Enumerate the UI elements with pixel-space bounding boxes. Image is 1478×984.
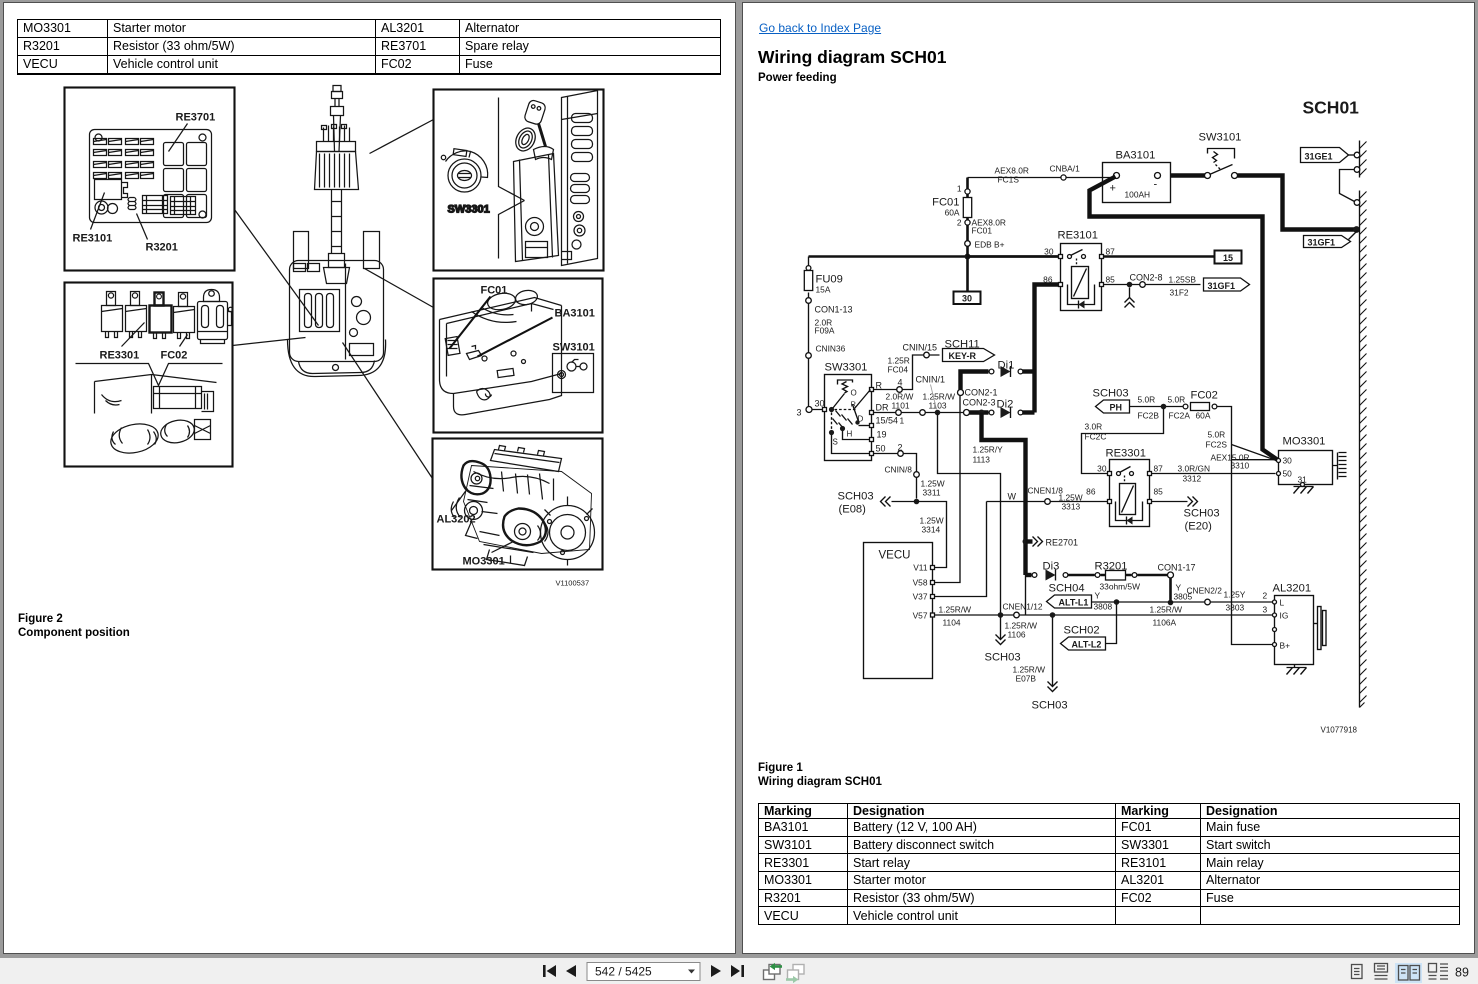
svg-text:33ohm/5W: 33ohm/5W — [1100, 582, 1141, 592]
wire 1106 drop to SCH03 — [1000, 618, 1002, 639]
svg-text:CNIN36: CNIN36 — [816, 344, 846, 354]
svg-text:FC2S: FC2S — [1206, 440, 1228, 450]
svg-text:R3201: R3201 — [1095, 561, 1128, 573]
svg-text:CNIN/8: CNIN/8 — [885, 465, 913, 475]
svg-text:FC2C: FC2C — [1085, 432, 1107, 442]
svg-text:30: 30 — [1097, 464, 1107, 474]
svg-text:-: - — [1154, 179, 1158, 191]
svg-text:SCH01: SCH01 — [1303, 98, 1360, 118]
ground wall right — [1360, 141, 1367, 708]
svg-text:SW3101: SW3101 — [1199, 132, 1242, 144]
svg-text:RE3301: RE3301 — [1106, 448, 1146, 460]
wire battery+ thick feed to MO3301 — [1090, 177, 1279, 461]
figure box 2: relay row and starter area — [65, 283, 233, 467]
svg-text:V58: V58 — [913, 578, 928, 588]
svg-text:1.25R/W: 1.25R/W — [939, 605, 972, 615]
alternator AL3201 — [1273, 583, 1327, 675]
svg-text:Di3: Di3 — [1043, 561, 1060, 573]
leader lines — [235, 210, 319, 326]
diode Di1 — [961, 372, 989, 390]
battery BA3101 — [1103, 163, 1171, 203]
svg-text:3.0R/GN: 3.0R/GN — [1178, 464, 1211, 474]
svg-text:31GE1: 31GE1 — [1305, 152, 1333, 162]
svg-text:2: 2 — [898, 443, 903, 453]
svg-text:1103: 1103 — [929, 401, 947, 411]
svg-text:3808: 3808 — [1094, 602, 1113, 612]
pulley — [1314, 623, 1318, 625]
svg-text:L: L — [1280, 598, 1285, 608]
svg-text:FC04: FC04 — [888, 365, 909, 375]
svg-text:FC02: FC02 — [161, 350, 188, 362]
relay RE3301 — [1097, 448, 1163, 527]
wire 1.25R/Y 1113 thick — [982, 413, 1026, 576]
ground MO3301 — [1301, 483, 1305, 487]
svg-text:CNEN2/2: CNEN2/2 — [1187, 586, 1223, 596]
relay RE3101 white — [95, 180, 122, 200]
svg-text:1.25R/W: 1.25R/W — [1150, 605, 1183, 615]
svg-text:FC01: FC01 — [481, 285, 508, 297]
svg-text:SCH02: SCH02 — [1064, 625, 1100, 637]
svg-text:89: 89 — [1455, 966, 1469, 980]
svg-text:542 / 5425: 542 / 5425 — [595, 965, 652, 979]
resistor R3201 coil — [128, 198, 136, 210]
svg-text:50: 50 — [876, 444, 886, 454]
machinery below — [95, 375, 217, 414]
svg-text:Y: Y — [1095, 591, 1101, 601]
svg-text:5.0R: 5.0R — [1168, 395, 1186, 405]
svg-text:3.0R: 3.0R — [1085, 422, 1103, 432]
callout line with notch — [76, 364, 223, 386]
svg-text:50: 50 — [1283, 469, 1293, 479]
svg-text:31GF1: 31GF1 — [1308, 238, 1336, 248]
connector blocks — [143, 196, 168, 214]
svg-text:RE3701: RE3701 — [176, 112, 216, 124]
wire RE3101 85 to CON2-8 — [1104, 284, 1201, 286]
svg-text:SW3301: SW3301 — [448, 204, 490, 216]
svg-text:SCH03: SCH03 — [985, 652, 1021, 664]
fuses grid — [94, 139, 154, 179]
wire R pin to KEY-R — [874, 355, 940, 390]
wire 1113 down to junction — [1025, 575, 1027, 615]
wire FC2C to RE3301 30 — [1082, 407, 1164, 474]
svg-text:1.25R/Y: 1.25R/Y — [973, 445, 1004, 455]
svg-text:FC01: FC01 — [972, 226, 993, 236]
svg-text:60A: 60A — [945, 208, 960, 218]
svg-text:5.0R: 5.0R — [1208, 430, 1226, 440]
svg-text:(E20): (E20) — [1185, 521, 1213, 533]
node CNBA/1 — [1061, 175, 1066, 180]
svg-text:RE3101: RE3101 — [1058, 230, 1098, 242]
fuse FC02 — [1183, 404, 1188, 409]
wire: top bus 30-feed — [809, 255, 1061, 258]
svg-text:CON2-1: CON2-1 — [965, 388, 998, 398]
svg-text:V1100537: V1100537 — [556, 579, 590, 588]
svg-text:2: 2 — [1263, 591, 1268, 601]
svg-text:1106A: 1106A — [1153, 618, 1177, 628]
svg-text:BA3101: BA3101 — [555, 308, 595, 320]
svg-text:1: 1 — [900, 416, 905, 426]
svg-text:+: + — [1110, 183, 1116, 195]
svg-text:AL3201: AL3201 — [1273, 583, 1312, 595]
svg-text:AL3202: AL3202 — [437, 514, 476, 526]
svg-text:4: 4 — [898, 378, 903, 388]
svg-text:CON1-17: CON1-17 — [1158, 563, 1196, 573]
svg-text:86: 86 — [1086, 487, 1096, 497]
svg-text:CON1-13: CON1-13 — [815, 305, 853, 315]
node CNIN36 — [806, 353, 812, 359]
flag 31GF1 top — [1304, 231, 1358, 248]
svg-text:3: 3 — [1263, 605, 1268, 615]
node CON1-13 — [806, 298, 812, 304]
svg-text:85: 85 — [1106, 275, 1116, 285]
rod rack — [324, 126, 350, 142]
wire E07B drop to SCH03 — [1052, 618, 1054, 686]
svg-text:31F2: 31F2 — [1170, 288, 1189, 298]
svg-text:1101: 1101 — [892, 401, 910, 411]
wire V57 row — [935, 614, 1273, 616]
central machine plan view — [288, 86, 386, 377]
svg-text:CNIN/1: CNIN/1 — [916, 375, 946, 385]
svg-text:V1077918: V1077918 — [1321, 726, 1358, 735]
svg-text:1.25SB: 1.25SB — [1169, 275, 1197, 285]
svg-text:S: S — [833, 438, 838, 447]
wire V37 to W wire — [935, 502, 987, 597]
figure box 4: battery compartment — [434, 279, 603, 433]
svg-text:RE3101: RE3101 — [73, 233, 113, 245]
svg-text:E07B: E07B — [1016, 674, 1037, 684]
svg-text:KEY-R: KEY-R — [949, 351, 977, 361]
switch SW3301 start switch — [823, 362, 899, 461]
svg-text:85: 85 — [1154, 487, 1164, 497]
ground stub chevron — [1129, 288, 1131, 298]
wire DR row — [874, 412, 964, 414]
svg-text:30: 30 — [1044, 247, 1054, 257]
svg-text:PH: PH — [1110, 403, 1123, 413]
round component — [95, 201, 108, 214]
fuse FU09 — [808, 257, 810, 298]
figure box 1: fuse/relay panel — [65, 88, 235, 271]
svg-text:1106: 1106 — [1008, 630, 1026, 640]
svg-text:SCH03: SCH03 — [1093, 388, 1129, 400]
figure box 3: start switch / console — [434, 90, 604, 271]
svg-text:V11: V11 — [913, 563, 928, 573]
node: bus/FC01 junction — [965, 254, 971, 260]
svg-text:RE2701: RE2701 — [1046, 538, 1079, 548]
svg-text:B+: B+ — [1280, 641, 1291, 651]
right panel — [562, 91, 598, 266]
svg-text:SCH03: SCH03 — [1184, 508, 1220, 520]
resistor R3201 — [1068, 574, 1168, 577]
svg-text:BA3101: BA3101 — [1116, 150, 1156, 162]
svg-text:2: 2 — [957, 218, 962, 228]
wire to SW3301 pin 30 — [809, 359, 825, 410]
VECU — [864, 543, 935, 679]
svg-text:15A: 15A — [816, 285, 831, 295]
node 30 terminal box — [954, 292, 981, 305]
diode Di3 row — [1026, 573, 1032, 577]
svg-text:3314: 3314 — [922, 525, 941, 535]
svg-text:FC2A: FC2A — [1169, 411, 1191, 421]
svg-text:19: 19 — [877, 430, 887, 440]
svg-text:EDB B+: EDB B+ — [975, 240, 1005, 250]
svg-text:3803: 3803 — [1226, 603, 1245, 613]
svg-text:F09A: F09A — [815, 326, 835, 336]
svg-text:15: 15 — [1223, 253, 1233, 263]
svg-text:CNBA/1: CNBA/1 — [1050, 164, 1081, 174]
svg-text:O: O — [851, 389, 857, 398]
svg-text:ALT-L2: ALT-L2 — [1072, 640, 1102, 650]
svg-text:CON2-3: CON2-3 — [963, 398, 996, 408]
wire CNIN/8 branch — [874, 454, 917, 499]
node W junction — [914, 499, 920, 505]
wire RE3301 85 to SCH03 E20 — [1152, 501, 1188, 503]
svg-text:3310: 3310 — [1231, 461, 1250, 471]
LEFT PAGE — [3, 2, 736, 954]
svg-text:31GF1: 31GF1 — [1208, 281, 1236, 291]
svg-text:FC02: FC02 — [1191, 390, 1218, 402]
console — [499, 98, 525, 259]
svg-text:CON2-8: CON2-8 — [1130, 273, 1163, 283]
wire 1.25Y row — [1117, 601, 1273, 603]
svg-text:3: 3 — [796, 408, 801, 418]
wire CNIN/1 to CNEN1/12 — [938, 413, 1001, 616]
svg-text:87: 87 — [1154, 464, 1164, 474]
wire RE3101 86 thick — [1035, 285, 1059, 413]
node 30 / 3 — [806, 407, 812, 413]
wire switch to ground wall — [1238, 176, 1356, 230]
svg-text:VECU: VECU — [879, 550, 911, 562]
starter motor MO3301 — [1277, 436, 1347, 494]
svg-text:V57: V57 — [913, 611, 928, 621]
uprights — [294, 232, 309, 269]
wire RE3101 30/87 row — [968, 255, 1215, 258]
svg-text:SCH04: SCH04 — [1049, 583, 1085, 595]
diode Di2 — [970, 410, 989, 414]
flag 31GF1 — [1204, 278, 1250, 291]
svg-text:CNIN/15: CNIN/15 — [903, 343, 938, 353]
svg-text:DR: DR — [876, 403, 889, 413]
svg-text:RE3301: RE3301 — [100, 350, 140, 362]
svg-text:MO3301: MO3301 — [463, 556, 505, 568]
svg-text:SCH03: SCH03 — [1032, 700, 1068, 712]
svg-text:W: W — [1008, 492, 1017, 502]
ground AL3201 — [1294, 665, 1296, 668]
fuse FC01 chain — [966, 178, 969, 292]
svg-text:ALT-L1: ALT-L1 — [1059, 598, 1089, 608]
figure box 5: engine — [433, 439, 603, 570]
wire to SCH03 (E08) — [892, 502, 947, 568]
node EDB B+ — [965, 241, 971, 247]
svg-text:IG: IG — [1280, 611, 1289, 621]
svg-text:60A: 60A — [1196, 411, 1211, 421]
svg-text:CNEN1/12: CNEN1/12 — [1003, 602, 1043, 612]
svg-text:FC1S: FC1S — [998, 175, 1020, 185]
svg-text:30: 30 — [1283, 456, 1293, 466]
wire FC02 to B+ and MO3301 — [1217, 407, 1273, 645]
TOOLBAR — [0, 958, 1478, 984]
svg-text:1.25Y: 1.25Y — [1224, 590, 1246, 600]
svg-text:H: H — [847, 430, 853, 439]
svg-text:(E08): (E08) — [839, 504, 867, 516]
svg-text:1104: 1104 — [943, 618, 961, 628]
wire W to RE3301 86 — [987, 501, 1108, 503]
svg-text:30: 30 — [962, 294, 972, 304]
svg-text:1: 1 — [957, 184, 962, 194]
svg-text:3313: 3313 — [1062, 502, 1081, 512]
svg-text:3312: 3312 — [1183, 474, 1202, 484]
svg-text:SW3101: SW3101 — [553, 342, 595, 354]
wire RE3301 87 to MO3301 50 — [1152, 473, 1276, 475]
chevron RE2701 — [1023, 539, 1029, 545]
svg-text:SCH03: SCH03 — [838, 491, 874, 503]
svg-text:MO3301: MO3301 — [1283, 436, 1326, 448]
node 15 terminal box — [1215, 251, 1242, 264]
svg-text:1113: 1113 — [973, 455, 991, 465]
RIGHT PAGE — [742, 2, 1475, 954]
svg-text:FC2B: FC2B — [1138, 411, 1160, 421]
svg-text:R3201: R3201 — [146, 242, 178, 254]
node CON1-17 — [1168, 572, 1174, 578]
relays grid — [164, 143, 184, 166]
flag 31GE1 — [1301, 148, 1360, 206]
wire FC01 to battery — [968, 177, 1112, 179]
svg-text:15/54: 15/54 — [876, 416, 899, 426]
svg-text:3311: 3311 — [923, 488, 941, 498]
mast column — [332, 190, 342, 254]
wire V58 to CON2-1 — [935, 396, 961, 583]
svg-text:5.0R: 5.0R — [1138, 395, 1156, 405]
actuator — [838, 380, 853, 385]
wire 2.0R F09A — [808, 304, 810, 353]
relay RE3101 — [1043, 230, 1115, 311]
svg-text:100AH: 100AH — [1125, 190, 1151, 200]
body — [290, 261, 384, 362]
wire battery- to switch — [1171, 173, 1206, 177]
svg-text:V37: V37 — [913, 592, 928, 602]
fuse holder FC02 — [198, 290, 233, 344]
svg-text:SW3301: SW3301 — [825, 362, 868, 374]
node CON2-1 / CON2-3 — [958, 390, 964, 396]
svg-text:87: 87 — [1106, 247, 1116, 257]
